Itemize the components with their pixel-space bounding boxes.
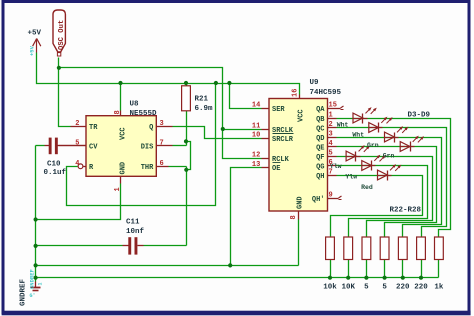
svg-text:1: 1: [114, 187, 122, 191]
svg-text:6: 6: [160, 160, 164, 168]
svg-text:Ylw: Ylw: [345, 174, 357, 181]
svg-text:14: 14: [252, 102, 260, 110]
svg-text:GNDREF: GNDREF: [29, 269, 36, 289]
svg-text:15: 15: [329, 102, 337, 110]
svg-text:GND: GND: [297, 196, 305, 209]
svg-text:2: 2: [75, 120, 79, 128]
svg-text:10K: 10K: [341, 284, 355, 292]
svg-text:GND: GND: [120, 162, 128, 175]
svg-text:QF: QF: [316, 154, 324, 162]
svg-text:OSC Out: OSC Out: [58, 20, 66, 50]
svg-text:Wht: Wht: [337, 121, 349, 128]
svg-text:QG: QG: [316, 163, 324, 171]
svg-text:10k: 10k: [323, 284, 337, 292]
svg-text:12: 12: [252, 152, 260, 160]
svg-text:10nf: 10nf: [126, 228, 145, 236]
svg-text:Q: Q: [149, 124, 153, 132]
svg-text:4: 4: [329, 140, 333, 148]
svg-text:NE555D: NE555D: [130, 110, 158, 118]
svg-text:QC: QC: [316, 125, 324, 133]
svg-text:CV: CV: [89, 144, 98, 152]
svg-text:Grn: Grn: [367, 142, 379, 149]
svg-text:G': G': [30, 293, 36, 299]
svg-text:VCC: VCC: [120, 127, 128, 140]
svg-text:D3-D9: D3-D9: [408, 112, 431, 120]
svg-text:5: 5: [382, 284, 387, 292]
svg-text:1: 1: [38, 282, 44, 285]
svg-text:6.9m: 6.9m: [195, 105, 214, 113]
svg-text:220: 220: [396, 284, 410, 292]
svg-text:OE: OE: [272, 165, 280, 173]
svg-text:5: 5: [75, 140, 79, 148]
svg-text:Red: Red: [361, 184, 373, 191]
svg-text:VCC: VCC: [298, 109, 306, 122]
svg-text:220: 220: [414, 284, 428, 292]
svg-text:16: 16: [292, 89, 300, 97]
svg-text:7: 7: [160, 140, 164, 148]
svg-text:QH': QH': [312, 196, 325, 204]
svg-text:SRCLR: SRCLR: [272, 136, 294, 144]
svg-text:1: 1: [329, 112, 333, 120]
svg-text:+5V: +5V: [28, 30, 42, 38]
svg-text:C10: C10: [47, 161, 61, 169]
svg-text:U9: U9: [310, 79, 320, 87]
svg-text:SER: SER: [272, 106, 285, 114]
svg-text:QB: QB: [316, 116, 325, 124]
svg-text:5: 5: [329, 150, 333, 158]
svg-text:0.1uf: 0.1uf: [44, 169, 67, 177]
svg-text:11: 11: [252, 123, 260, 131]
svg-text:8: 8: [290, 215, 298, 219]
svg-text:74HC595: 74HC595: [310, 89, 342, 97]
svg-text:13: 13: [252, 161, 260, 169]
svg-text:Grn: Grn: [383, 153, 395, 160]
svg-text:QD: QD: [316, 135, 324, 143]
svg-text:3: 3: [160, 120, 164, 128]
svg-text:QH: QH: [316, 173, 324, 181]
svg-text:GNDREF: GNDREF: [20, 278, 28, 306]
svg-text:8: 8: [114, 110, 122, 114]
svg-text:R22-R28: R22-R28: [390, 207, 422, 215]
svg-text:10: 10: [252, 132, 260, 140]
svg-text:+5V: +5V: [29, 45, 36, 56]
svg-text:4: 4: [75, 160, 79, 168]
svg-text:7: 7: [329, 169, 333, 177]
svg-text:2: 2: [329, 121, 333, 129]
svg-text:6: 6: [329, 159, 333, 167]
svg-text:3: 3: [329, 131, 333, 139]
svg-text:QE: QE: [316, 144, 324, 152]
svg-text:5: 5: [364, 284, 369, 292]
svg-text:9: 9: [329, 192, 333, 200]
svg-text:QA: QA: [316, 106, 325, 114]
svg-text:Wht: Wht: [352, 132, 364, 139]
svg-text:THR: THR: [141, 164, 154, 172]
svg-text:C11: C11: [126, 219, 140, 227]
svg-text:1k: 1k: [434, 284, 444, 292]
svg-text:TR: TR: [89, 124, 98, 132]
svg-text:DIS: DIS: [141, 144, 154, 152]
svg-text:U8: U8: [130, 101, 140, 109]
svg-text:R21: R21: [195, 96, 209, 104]
